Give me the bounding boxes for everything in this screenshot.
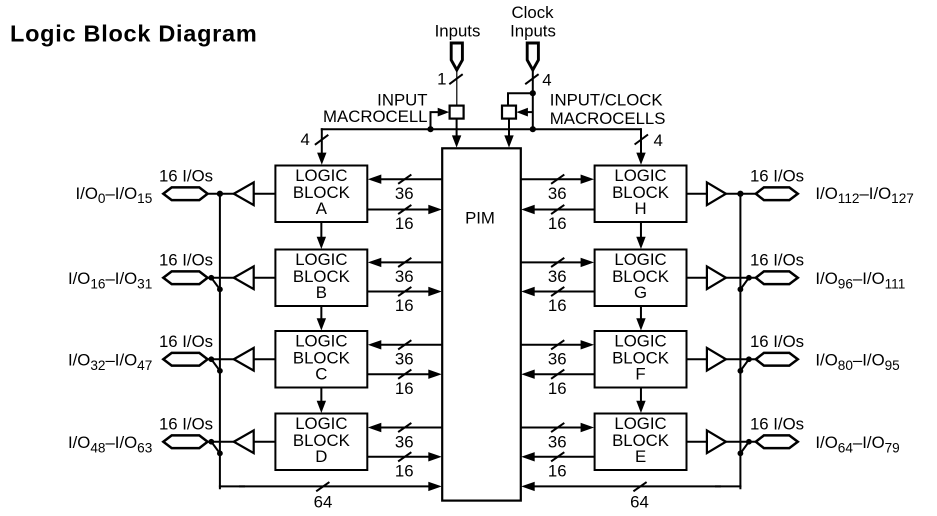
wire+arrow: bus to INPUT MACROCELL box — [431, 108, 450, 130]
wire+arrow: 64 lines into PIM (left) — [239, 482, 442, 491]
svg-text:I/O80–I/O95: I/O80–I/O95 — [815, 351, 899, 373]
svg-text:Inputs: Inputs — [510, 21, 556, 40]
wire: pad to buffer (block C) — [208, 358, 235, 360]
wire+arrow: 16 lines block A to PIM — [367, 205, 442, 214]
bus slash 4 (left) — [315, 135, 328, 145]
wire: clock to INPUT/CLOCK box top — [508, 93, 533, 106]
junction dots+tap: I/O row G to right feedback rail — [738, 275, 752, 292]
junction dots+tap: I/O row B to left feedback rail — [208, 275, 222, 292]
I/O pad range label I/O32-I/O47 — [68, 351, 152, 373]
title: Logic Block Diagram — [10, 21, 257, 47]
bus slash 16 (block C) — [398, 370, 411, 379]
svg-text:D: D — [315, 447, 327, 466]
bus width label 36 (block H) — [548, 184, 567, 203]
wire+arrow: INPUT MACROCELL box to PIM — [452, 119, 461, 148]
output buffer (block A) — [234, 182, 254, 205]
svg-text:C: C — [315, 364, 327, 383]
wire+arrow: clock wire to INPUT/CLOCK box right side — [516, 108, 532, 117]
I/O pad range label I/O80-I/O95 — [815, 351, 899, 373]
svg-text:INPUT/CLOCK: INPUT/CLOCK — [550, 91, 663, 110]
wire: buffer to pad (block F) — [725, 358, 756, 360]
logic block A — [275, 166, 367, 223]
I/O pad hexagon (block F) — [756, 353, 798, 366]
label Inputs — [435, 21, 481, 40]
top bus wire — [321, 128, 641, 130]
wire+arrow: 16 lines block B to PIM — [367, 287, 442, 296]
wire+arrow: 16 lines block H to PIM — [521, 205, 594, 214]
wire+arrow: 36 lines PIM to block H — [521, 175, 594, 184]
label Clock Inputs — [510, 3, 556, 41]
svg-text:36: 36 — [395, 432, 414, 451]
svg-text:4: 4 — [542, 70, 551, 89]
bus width label 16 (block A) — [395, 214, 414, 233]
svg-text:A: A — [316, 199, 328, 218]
svg-text:I/O48–I/O63: I/O48–I/O63 — [68, 433, 152, 455]
wire: buffer to block A — [254, 193, 276, 195]
wire: pad to buffer (block B) — [208, 277, 235, 279]
bus width label 4 (left) — [300, 130, 309, 149]
output buffer (block B) — [234, 266, 254, 289]
svg-text:1: 1 — [437, 70, 446, 89]
output buffer (block H) — [707, 182, 726, 205]
svg-text:36: 36 — [548, 350, 567, 369]
bus slash 16 (block F) — [551, 370, 564, 379]
bus slash 36 (block G) — [551, 258, 564, 267]
I/O pad range label I/O16-I/O31 — [68, 269, 152, 291]
bus slash 16 (block B) — [398, 287, 411, 296]
svg-text:36: 36 — [548, 184, 567, 203]
svg-text:16 I/Os: 16 I/Os — [750, 414, 804, 433]
wire: buffer to block B — [254, 277, 276, 279]
junction: I/O row A on left feedback rail — [217, 191, 223, 197]
bus width label 16 (block E) — [548, 461, 567, 480]
bus slash 16 (block G) — [551, 287, 564, 296]
svg-text:16: 16 — [548, 461, 567, 480]
wire: buffer to pad (block E) — [725, 441, 756, 443]
bus width label 64 (left) — [314, 492, 333, 511]
wire+arrow: 64 lines into PIM (right) — [521, 482, 721, 491]
svg-text:16 I/Os: 16 I/Os — [750, 166, 804, 185]
wire+arrow: 36 lines PIM to block G — [521, 258, 594, 267]
bus slash 16 (block D) — [398, 452, 411, 461]
wire: buffer to pad (block G) — [725, 277, 756, 279]
bus width label 36 (block C) — [395, 350, 414, 369]
clock input pin connector — [527, 43, 538, 70]
I/O pad hexagon (block A) — [163, 187, 207, 200]
junction on top bus (input macrocell feed) — [427, 126, 433, 132]
I/O pad hexagon (block H) — [756, 187, 798, 200]
svg-text:16: 16 — [395, 379, 414, 398]
label INPUT MACROCELL — [323, 91, 427, 127]
I/O pad hexagon (block D) — [163, 435, 207, 448]
junction: clock wire on top bus — [530, 126, 536, 132]
svg-text:I/O32–I/O47: I/O32–I/O47 — [68, 351, 152, 373]
bus slash 16 (block A) — [398, 205, 411, 214]
junction: I/O row H on right feedback rail — [737, 191, 743, 197]
left I/O feedback rail wire — [219, 194, 245, 490]
svg-text:I/O0–I/O15: I/O0–I/O15 — [76, 184, 153, 206]
bus slash 16 (block E) — [551, 452, 564, 461]
bus width label 4 (right) — [654, 131, 663, 150]
wire+arrow: block H to block G — [636, 222, 645, 249]
svg-text:16 I/Os: 16 I/Os — [750, 332, 804, 351]
I/O pad hexagon (block E) — [756, 435, 798, 448]
junction on clock wire — [530, 90, 536, 96]
bus width label 36 (block D) — [395, 432, 414, 451]
wire+arrow: 16 lines block C to PIM — [367, 370, 442, 379]
bus width label 1 — [437, 70, 446, 89]
bus width label 16 (block C) — [395, 379, 414, 398]
svg-text:MACROCELLS: MACROCELLS — [550, 109, 666, 128]
output buffer (block G) — [707, 266, 726, 289]
svg-text:16 I/Os: 16 I/Os — [159, 414, 213, 433]
bus width label 16 (block D) — [395, 461, 414, 480]
label 16 I/Os (block A) — [159, 166, 213, 185]
svg-text:36: 36 — [395, 350, 414, 369]
input/clock macrocell box U2 — [502, 106, 516, 119]
svg-text:4: 4 — [654, 131, 663, 150]
bus slash 4 (right) — [635, 135, 648, 145]
bus slash 36 (block H) — [551, 175, 564, 184]
PIM block — [442, 148, 521, 500]
junction dots+tap: I/O row F to right feedback rail — [738, 356, 752, 373]
I/O pad hexagon (block C) — [163, 353, 207, 366]
bus width label 36 (block A) — [395, 184, 414, 203]
I/O pad range label I/O0-I/O15 — [76, 184, 153, 206]
input macrocell box U1 — [450, 106, 464, 119]
svg-text:36: 36 — [395, 184, 414, 203]
wire+arrow: 36 lines PIM to block B — [368, 258, 442, 267]
bus width label 36 (block G) — [548, 267, 567, 286]
bus slash 64 (right) — [633, 482, 646, 491]
bus width label 16 (block F) — [548, 379, 567, 398]
svg-text:I/O112–I/O127: I/O112–I/O127 — [815, 184, 913, 206]
wire: buffer to block D — [254, 441, 276, 443]
junction dots+tap: I/O row C to left feedback rail — [208, 356, 222, 373]
label 16 I/Os (block D) — [159, 414, 213, 433]
bus slash 16 (block H) — [551, 205, 564, 214]
wire+arrow: 36 lines PIM to block D — [368, 423, 442, 432]
label 16 I/Os (block E) — [750, 414, 804, 433]
label INPUT/CLOCK MACROCELLS — [550, 91, 666, 128]
svg-text:PIM: PIM — [465, 209, 495, 228]
svg-text:B: B — [316, 283, 327, 302]
I/O pad range label I/O48-I/O63 — [68, 433, 152, 455]
bus slash 36 (block B) — [398, 258, 411, 267]
junction dots+tap: I/O row E to right feedback rail — [738, 439, 752, 456]
bus slash 36 (block D) — [398, 423, 411, 432]
wire+arrow: block G to block F — [636, 306, 645, 331]
wire: block F to buffer — [687, 358, 707, 360]
svg-text:F: F — [635, 364, 645, 383]
svg-text:G: G — [634, 283, 647, 302]
svg-text:16: 16 — [548, 296, 567, 315]
wire+arrow: block F to block E — [636, 388, 645, 414]
bus slash 36 (block C) — [398, 340, 411, 349]
wire+arrow: 16 lines block D to PIM — [367, 452, 442, 461]
bus width label 16 (block B) — [395, 296, 414, 315]
svg-text:16: 16 — [548, 214, 567, 233]
bus width label 36 (block F) — [548, 350, 567, 369]
wire+arrow: 16 lines block E to PIM — [521, 452, 594, 461]
svg-text:64: 64 — [630, 493, 649, 512]
svg-text:36: 36 — [548, 432, 567, 451]
svg-text:16: 16 — [395, 214, 414, 233]
wire+arrow: 36 lines PIM to block C — [368, 340, 442, 349]
svg-text:E: E — [635, 447, 646, 466]
svg-text:64: 64 — [314, 492, 333, 511]
svg-text:36: 36 — [548, 267, 567, 286]
svg-text:4: 4 — [300, 130, 309, 149]
wire: pad to buffer (block A) — [208, 193, 235, 195]
wire: input pin to INPUT MACROCELL box — [456, 70, 458, 106]
wire: block G to buffer — [687, 277, 707, 279]
input pin connector — [451, 43, 462, 70]
I/O pad range label I/O112-I/O127 — [815, 184, 913, 206]
svg-text:16 I/Os: 16 I/Os — [159, 166, 213, 185]
svg-text:Clock: Clock — [512, 3, 555, 22]
logic block F — [595, 331, 687, 388]
svg-text:I/O96–I/O111: I/O96–I/O111 — [815, 269, 905, 291]
wire: clock pin down to top bus — [532, 70, 534, 129]
wire: pad to buffer (block D) — [208, 441, 235, 443]
output buffer (block C) — [234, 348, 254, 371]
wire+arrow: 36 lines PIM to block A — [368, 175, 442, 184]
wire+arrow: 36 lines PIM to block F — [521, 340, 594, 349]
label 16 I/Os (block H) — [750, 166, 804, 185]
wire+arrow: 4 lines into LOGIC BLOCK A — [317, 128, 326, 165]
label 16 I/Os (block B) — [159, 250, 213, 269]
bus width label 4 (clock) — [542, 70, 551, 89]
wire+arrow: 16 lines block G to PIM — [521, 287, 594, 296]
bus slash 1 — [449, 74, 462, 84]
bus slash 36 (block A) — [398, 175, 411, 184]
label 16 I/Os (block C) — [159, 332, 213, 351]
bus slash 36 (block E) — [551, 423, 564, 432]
svg-text:Logic Block Diagram: Logic Block Diagram — [10, 21, 257, 47]
output buffer (block E) — [707, 430, 726, 453]
I/O pad hexagon (block B) — [163, 271, 207, 284]
bus slash 64 (left) — [316, 482, 329, 491]
svg-text:16: 16 — [395, 296, 414, 315]
bus width label 36 (block E) — [548, 432, 567, 451]
svg-text:I/O16–I/O31: I/O16–I/O31 — [68, 269, 152, 291]
logic block B — [275, 250, 367, 307]
I/O pad range label I/O96-I/O111 — [815, 269, 905, 291]
I/O pad hexagon (block G) — [756, 271, 798, 284]
bus slash 4 (clock) — [525, 74, 538, 84]
output buffer (block F) — [707, 348, 726, 371]
wire+arrow: block B to block C — [317, 306, 326, 331]
wire: buffer to pad (block H) — [725, 193, 756, 195]
wire: block H to buffer — [687, 193, 707, 195]
I/O pad range label I/O64-I/O79 — [815, 433, 899, 455]
svg-text:36: 36 — [395, 267, 414, 286]
svg-text:16 I/Os: 16 I/Os — [750, 250, 804, 269]
wire+arrow: block C to block D — [317, 388, 326, 414]
svg-text:MACROCELL: MACROCELL — [323, 107, 427, 126]
label 16 I/Os (block G) — [750, 250, 804, 269]
logic block G — [595, 250, 687, 307]
wire+arrow: block A to block B — [317, 222, 326, 249]
wire+arrow: 36 lines PIM to block E — [521, 423, 594, 432]
logic block C — [275, 331, 367, 388]
output buffer (block D) — [234, 430, 254, 453]
svg-text:Inputs: Inputs — [435, 21, 481, 40]
wire+arrow: INPUT/CLOCK box to PIM — [504, 119, 513, 148]
junction dots+tap: I/O row D to left feedback rail — [208, 439, 222, 456]
logic block E — [595, 414, 687, 471]
logic block D — [275, 414, 367, 471]
svg-text:16 I/Os: 16 I/Os — [159, 332, 213, 351]
bus width label 36 (block B) — [395, 267, 414, 286]
bus width label 16 (block H) — [548, 214, 567, 233]
svg-text:16: 16 — [548, 379, 567, 398]
bus width label 64 (right) — [630, 493, 649, 512]
svg-text:H: H — [634, 199, 646, 218]
wire: buffer to block C — [254, 358, 276, 360]
wire+arrow: 4 lines into LOGIC BLOCK H — [636, 128, 645, 165]
right I/O feedback rail wire — [715, 194, 741, 490]
wire+arrow: 16 lines block F to PIM — [521, 370, 594, 379]
wire: block E to buffer — [687, 441, 707, 443]
svg-text:16: 16 — [395, 461, 414, 480]
svg-text:I/O64–I/O79: I/O64–I/O79 — [815, 433, 899, 455]
bus slash 36 (block F) — [551, 340, 564, 349]
label 16 I/Os (block F) — [750, 332, 804, 351]
logic block H — [595, 166, 687, 223]
svg-text:16 I/Os: 16 I/Os — [159, 250, 213, 269]
bus width label 16 (block G) — [548, 296, 567, 315]
